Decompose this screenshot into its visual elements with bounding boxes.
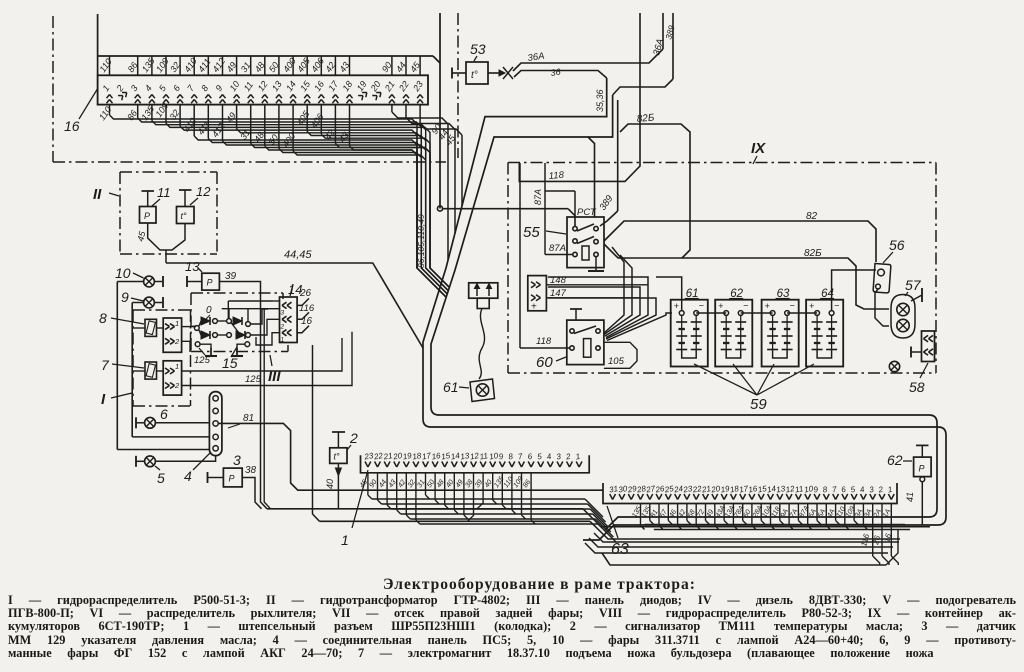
- svg-text:16: 16: [301, 316, 313, 327]
- svg-text:5: 5: [157, 470, 165, 486]
- diode panel ground 1: [195, 342, 200, 347]
- svg-text:60: 60: [536, 354, 553, 371]
- svg-text:t°: t°: [334, 452, 341, 462]
- component 53 terminal stub: [451, 68, 453, 79]
- electromagnet 7 connector box: [163, 361, 181, 395]
- shared bundle lanes right of X1: [372, 498, 585, 500]
- wire 43А from X63 pin 19: [723, 504, 725, 521]
- foglamp 6: [145, 417, 156, 428]
- relay 55 contacts: [573, 226, 577, 230]
- svg-text:+: +: [531, 302, 537, 313]
- svg-text:40: 40: [325, 479, 335, 489]
- svg-text:53: 53: [470, 41, 486, 57]
- svg-text:11: 11: [157, 185, 171, 200]
- wire 60 from X63 pin 16: [751, 504, 753, 526]
- wire 90 from X1 pin 22: [377, 473, 379, 500]
- electromagnet 8 fuse box: [145, 319, 157, 336]
- component 53 box: [466, 62, 488, 84]
- wires from diode panel to connector 14: [274, 300, 280, 302]
- svg-text:35,36: 35,36: [595, 89, 605, 112]
- battery link 63-64: [787, 312, 817, 314]
- wire to panel 4 hole bottom: [117, 449, 209, 451]
- svg-text:Р: Р: [207, 278, 213, 288]
- sensor 2 antenna: [337, 432, 339, 448]
- electromagnet 8 connector box: [163, 318, 181, 352]
- wire 81 from panel 4: [218, 423, 603, 490]
- wire 118 to relay 60: [519, 163, 521, 348]
- connecting panel 4: [209, 392, 222, 456]
- svg-text:+: +: [809, 301, 814, 311]
- svg-text:55: 55: [523, 224, 540, 241]
- svg-text:IX: IX: [751, 140, 766, 157]
- leader for label 16: [79, 88, 98, 119]
- wire 3А from X63 pin 3: [872, 504, 874, 557]
- sensor 62 box: [914, 457, 932, 477]
- battery 62 cells: [725, 316, 727, 351]
- svg-text:21: 21: [700, 484, 711, 495]
- unit V boundary dash-dot right: [457, 13, 459, 158]
- bus wire lower C: [320, 520, 591, 522]
- wire 28А from X63 pin 15: [760, 504, 762, 521]
- diode panel terminals left: [194, 326, 199, 331]
- battery 63 cells: [772, 316, 774, 351]
- unit III boundary dash-dot: [191, 292, 283, 294]
- crossing mark X on wire 36A: [503, 67, 513, 79]
- wires of unit 8: [133, 327, 145, 329]
- svg-text:15: 15: [222, 355, 238, 371]
- wire 49 from X1 pin 13: [463, 473, 465, 515]
- wire 135 from X1 pin 9: [501, 473, 503, 505]
- connector lug 105: [604, 342, 637, 368]
- wire 389 to relay 55: [617, 100, 619, 211]
- bus wire 38/39 lower: [267, 508, 583, 510]
- sensor 62 antenna: [921, 445, 923, 457]
- svg-text:36А: 36А: [527, 51, 545, 64]
- diode panel ground 2: [245, 342, 250, 347]
- svg-text:t°: t°: [181, 211, 188, 221]
- svg-text:62: 62: [887, 452, 903, 468]
- electromagnet 7 fuse box: [145, 362, 157, 379]
- wire 82: [604, 221, 876, 262]
- svg-text:1: 1: [341, 532, 349, 548]
- svg-text:7: 7: [101, 357, 110, 373]
- unit IX boundary dash-dot bottom: [508, 372, 936, 374]
- wire 43 from X1 pin 20: [396, 473, 398, 510]
- connector X1 bracket: [361, 455, 590, 473]
- svg-text:148: 148: [550, 275, 567, 286]
- unit V boundary dash-dot bottom: [53, 161, 446, 163]
- svg-text:−: −: [743, 301, 748, 311]
- wire 7А from X63 pin 11: [797, 504, 799, 521]
- svg-text:+: +: [718, 301, 723, 311]
- svg-text:116: 116: [299, 303, 315, 314]
- svg-text:41: 41: [905, 492, 915, 502]
- label 0 pointer: [206, 315, 210, 319]
- wire 36A: [513, 49, 663, 71]
- wire 82B upper: [620, 124, 690, 258]
- bundle lines under X63: [594, 533, 899, 542]
- svg-text:105: 105: [608, 356, 625, 367]
- svg-text:2: 2: [280, 323, 285, 330]
- wire 39: [219, 282, 267, 509]
- wires 90 44 45 from pins 21-23 of X16: [391, 105, 393, 112]
- svg-text:0: 0: [206, 305, 212, 316]
- svg-text:125: 125: [245, 374, 262, 385]
- svg-text:82Б: 82Б: [804, 248, 822, 259]
- wire pipe outer line: [423, 78, 946, 540]
- svg-text:82: 82: [806, 211, 818, 222]
- diode row 1: [199, 321, 201, 326]
- left vertical wire 2: [131, 303, 133, 437]
- headlamp 9: [144, 297, 155, 308]
- wire 4А from X63 pin 7: [835, 504, 837, 521]
- bus step down right of X1: [583, 509, 930, 527]
- relay 60 contacts: [570, 329, 574, 333]
- svg-text:31: 31: [608, 484, 618, 494]
- wire vertical 440 to junction: [439, 13, 441, 209]
- svg-text:+: +: [674, 301, 679, 311]
- arrow after 53: [488, 72, 499, 74]
- connector 14 box: [280, 297, 298, 343]
- relay 55 resistor: [582, 246, 589, 260]
- svg-text:118: 118: [536, 336, 552, 347]
- wire 16 hook: [297, 326, 309, 333]
- wire 46 from X63 pin 24: [677, 504, 679, 526]
- svg-text:56: 56: [889, 237, 905, 253]
- sensor 3 stub: [207, 472, 209, 483]
- wire 10А from X63 pin 14: [770, 504, 772, 526]
- sensor 3 box: [223, 468, 242, 487]
- wire 40 from X1 pin 14: [453, 473, 455, 510]
- wire 72 from X63 pin 21: [705, 504, 707, 521]
- left vertical wire 1: [116, 282, 118, 450]
- svg-text:44,45: 44,45: [284, 249, 312, 261]
- wire 87A upper: [544, 163, 546, 255]
- battery link 62-63: [741, 312, 773, 314]
- svg-text:Р: Р: [144, 211, 150, 221]
- diode row 2: [201, 331, 210, 339]
- svg-text:86,105,110,49: 86,105,110,49: [416, 214, 426, 268]
- svg-text:59: 59: [750, 396, 767, 413]
- wire 110 from X1 pin 8: [511, 473, 513, 510]
- svg-text:13: 13: [185, 259, 200, 274]
- connector 14 pin 3: [282, 302, 287, 305]
- wire 67 from X63 pin 25: [667, 504, 669, 521]
- shared lanes right of X63: [645, 524, 906, 526]
- component 58 terminal stub: [911, 351, 922, 353]
- relay 55 box: [567, 217, 604, 268]
- wire 41: [920, 477, 925, 482]
- wire 42 from X63 pin 23: [686, 504, 688, 521]
- wire riser left of X16: [97, 14, 99, 75]
- wire 147: [546, 297, 640, 299]
- svg-text:39: 39: [225, 271, 237, 282]
- relay 55 ground: [595, 257, 597, 271]
- wire to panel 4 hole 4: [132, 436, 209, 438]
- relay 60 box: [567, 320, 604, 365]
- wire 9А from X63 pin 12: [788, 504, 790, 526]
- headlamp 10: [144, 276, 155, 287]
- unit V boundary dash-dot left: [52, 16, 54, 162]
- svg-text:2: 2: [174, 337, 180, 346]
- svg-text:Электрооборудование в раме тра: Электрооборудование в раме трактора:: [383, 576, 696, 593]
- unit IX boundary dash-dot left: [507, 163, 509, 374]
- wire 389 top vertical: [672, 13, 674, 79]
- svg-text:125: 125: [194, 355, 211, 366]
- wire 109 from X1 pin 7: [521, 473, 523, 515]
- svg-text:63: 63: [611, 541, 629, 558]
- battery 61 box: [671, 300, 708, 367]
- lamp 61 tilted frame: [470, 379, 495, 402]
- wire 13А from X63 pin 18: [732, 504, 734, 526]
- fan wires from relay 60: [604, 247, 624, 333]
- unit II boundary dash-dot: [120, 171, 217, 173]
- wire from lamp 5 to panel 4: [156, 456, 216, 462]
- wires of unit 7: [133, 370, 145, 372]
- wire pipe inner line: [431, 95, 937, 530]
- svg-text:t°: t°: [471, 70, 478, 81]
- wire 118 from X63 pin 13: [779, 504, 781, 521]
- svg-text:61: 61: [443, 379, 459, 395]
- battery 63 box: [762, 300, 799, 367]
- wire 82B lower: [604, 244, 889, 309]
- sensor 11 box: [140, 207, 157, 224]
- wires from X1 pins 10-12 to left bus: [477, 473, 483, 509]
- svg-text:57: 57: [905, 277, 922, 293]
- wire 42 from X1 pin 19: [405, 473, 407, 515]
- wire 118 upper: [519, 13, 640, 181]
- battery link 61-62: [696, 312, 726, 314]
- connector X16 top bus: [98, 55, 433, 57]
- wire from lamp 9: [132, 302, 143, 304]
- sensor 12 antenna: [184, 190, 186, 207]
- wire 5А from X63 pin 8: [825, 504, 827, 526]
- wire 81 from X63 pin 26: [658, 504, 660, 526]
- node junction on wire 440: [437, 206, 442, 211]
- wire 40 from X1 pin 10: [492, 473, 494, 500]
- svg-text:−: −: [699, 301, 704, 311]
- svg-text:9: 9: [121, 289, 129, 305]
- relay 60 antenna: [575, 309, 577, 320]
- wire 109 from X63 pin 5: [853, 504, 855, 521]
- component 57 terminal stub: [911, 295, 922, 301]
- wire bus bevel to vertical 440: [433, 56, 440, 63]
- wire from node 440 to relay 55: [443, 208, 569, 210]
- component 58 connector box: [922, 331, 935, 362]
- svg-text:10: 10: [115, 265, 131, 281]
- svg-text:3: 3: [281, 309, 285, 316]
- svg-text:12: 12: [196, 184, 211, 199]
- wire 1А from X63 pin 1: [890, 504, 892, 557]
- svg-text:26: 26: [299, 288, 312, 299]
- wire 135 from X63 pin 28: [640, 504, 642, 526]
- wire 38: [242, 478, 261, 509]
- wire 110 from X63 pin 6: [844, 504, 846, 526]
- wire 49 from X63 pin 20: [714, 504, 716, 526]
- svg-text:118: 118: [548, 170, 565, 182]
- relay 60 resistor: [584, 339, 591, 358]
- wire 32 from X1 pin 18: [415, 473, 417, 520]
- connector 148/147 pins: [531, 282, 536, 285]
- svg-text:2: 2: [349, 430, 358, 446]
- wire 78А from X63 pin 17: [742, 504, 744, 521]
- unit IX boundary dash-dot top: [508, 162, 936, 164]
- battery 61 cells: [681, 316, 683, 351]
- wire 44 from X1 pin 21: [386, 473, 388, 505]
- wire 135 from X63 pin 27: [649, 504, 651, 521]
- plow arrows component: [469, 283, 498, 298]
- svg-text:1: 1: [175, 319, 179, 328]
- svg-text:Р: Р: [919, 464, 925, 474]
- connector 14 pin 1: [282, 330, 287, 333]
- wire 148: [546, 284, 648, 286]
- sensor 13 stub: [186, 276, 188, 287]
- connector 148/147 box: [528, 276, 547, 311]
- flexible wire to lamp 61: [479, 309, 485, 380]
- wire 87А from X63 pin 10: [807, 504, 809, 526]
- wire 6А from X63 pin 9: [816, 504, 818, 521]
- wire 2А from X63 pin 2: [881, 504, 883, 557]
- wire from diode panel down (bus feed): [264, 309, 270, 509]
- svg-text:11: 11: [479, 451, 489, 461]
- wire from diode area down to bus C: [313, 345, 320, 521]
- sensor 2 box: [330, 448, 347, 464]
- svg-text:11: 11: [794, 484, 804, 494]
- wire 26 hook: [297, 298, 309, 305]
- lamp at IX boundary: [889, 361, 899, 371]
- svg-text:4: 4: [184, 468, 192, 484]
- unit I boundary dash-dot: [133, 309, 191, 311]
- svg-text:2: 2: [174, 381, 180, 390]
- wire 45 from X1 pin 23: [367, 473, 369, 495]
- wire branch from pipe to relay 55: [588, 137, 595, 217]
- wires merging below 11 and 12: [148, 223, 166, 250]
- component 57 capsule: [891, 295, 915, 339]
- svg-text:87А: 87А: [549, 243, 566, 254]
- svg-text:1: 1: [175, 362, 179, 371]
- unit IX boundary dash-dot right: [935, 163, 937, 374]
- svg-text:3: 3: [233, 452, 241, 468]
- wires group A below X16 (110 86 135 109 32 49 405 406): [109, 105, 111, 115]
- wire 40 with arrow: [337, 463, 339, 508]
- svg-text:82Б: 82Б: [636, 112, 655, 125]
- foglamp 5: [145, 456, 156, 467]
- wire 86 from X1 pin 6: [530, 473, 532, 520]
- sensor 11 antenna: [147, 191, 149, 207]
- battery 64 box: [806, 300, 843, 367]
- wire 125 from unit 7: [182, 332, 352, 386]
- svg-text:II: II: [93, 186, 102, 203]
- svg-text:87А: 87А: [533, 189, 543, 205]
- svg-text:81: 81: [243, 413, 254, 424]
- wire from battery 64 minus: [832, 270, 876, 311]
- wire 3А from X63 pin 4: [862, 504, 864, 526]
- wire 31 from X1 pin 17: [425, 473, 427, 495]
- svg-text:6: 6: [160, 406, 168, 422]
- svg-text:1: 1: [281, 337, 285, 344]
- component 56 capsule: [873, 263, 891, 293]
- wire 44,45: [166, 263, 423, 348]
- wire 50 from X1 pin 16: [434, 473, 436, 500]
- battery 64 cells: [816, 316, 818, 351]
- wire from battery 61 plus: [656, 277, 682, 311]
- svg-text:21: 21: [382, 451, 393, 462]
- battery 62 box: [715, 300, 752, 367]
- wire top of diode panel: [228, 300, 273, 302]
- connector 14 pin 2: [282, 316, 287, 319]
- wire from lamp 10: [117, 281, 143, 283]
- connector X63 bracket: [603, 483, 897, 504]
- sensor 13 box: [202, 273, 220, 290]
- wire 68 from X63 pin 22: [695, 504, 697, 526]
- svg-text:16: 16: [64, 118, 80, 134]
- svg-text:58: 58: [909, 379, 925, 395]
- connector X16 band: [98, 75, 428, 104]
- svg-text:147: 147: [550, 288, 567, 299]
- wire from 56 to lamp 57: [875, 289, 889, 326]
- svg-text:III: III: [268, 368, 281, 385]
- wire 116 hook: [297, 312, 309, 319]
- svg-text:−: −: [834, 301, 839, 311]
- wire 48 from X1 pin 15: [444, 473, 446, 505]
- wire 36: [514, 71, 607, 79]
- svg-text:+: +: [765, 301, 770, 311]
- svg-text:−: −: [790, 301, 795, 311]
- sensor 12 box: [177, 207, 195, 224]
- svg-text:Р: Р: [229, 474, 235, 484]
- svg-text:8: 8: [99, 310, 107, 326]
- wire 87A lower: [545, 254, 573, 256]
- svg-text:38: 38: [245, 465, 257, 476]
- svg-text:36: 36: [550, 67, 561, 78]
